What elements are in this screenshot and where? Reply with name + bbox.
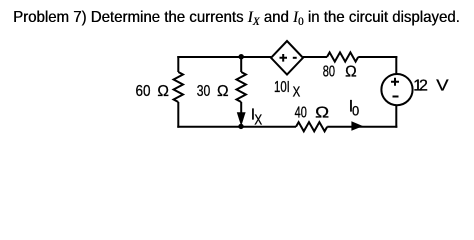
minus sign in diamond bbox=[293, 57, 297, 59]
node B junction dot bottom bbox=[238, 124, 243, 129]
svg-text:2: 2 bbox=[419, 78, 428, 95]
dependent source U1 diamond bbox=[271, 41, 303, 75]
wire left vertical lower bbox=[177, 102, 179, 128]
wire 30ohm branch lower bbox=[240, 102, 242, 113]
wire right vertical upper bbox=[395, 56, 397, 75]
svg-text:60: 60 bbox=[136, 83, 151, 100]
svg-text:10I: 10I bbox=[274, 79, 290, 96]
resistor R 30ohm (zigzag) bbox=[237, 72, 246, 102]
svg-text:Ω: Ω bbox=[217, 83, 229, 100]
svg-text:0: 0 bbox=[352, 102, 359, 118]
svg-text:V: V bbox=[436, 78, 449, 95]
wire top-left horizontal bbox=[177, 56, 271, 58]
resistor R 60ohm (zigzag) bbox=[174, 72, 183, 102]
svg-text:Ω: Ω bbox=[345, 63, 357, 80]
svg-text:30: 30 bbox=[197, 83, 211, 100]
plus sign in diamond bbox=[280, 54, 288, 62]
svg-text:X: X bbox=[293, 85, 301, 101]
title text bbox=[13, 10, 460, 26]
svg-text:Ω: Ω bbox=[157, 83, 169, 100]
resistor R 40ohm (zigzag) bbox=[296, 122, 327, 131]
minus sign in source bbox=[393, 96, 399, 98]
current arrow I0 (right) bbox=[351, 121, 363, 131]
svg-text:40: 40 bbox=[295, 105, 307, 122]
wire diamond to 80ohm bbox=[303, 56, 327, 58]
resistor R 80ohm (zigzag) bbox=[327, 52, 358, 61]
wire 30ohm branch upper bbox=[240, 57, 242, 72]
wire bottom right segment bbox=[327, 126, 397, 128]
wire right vertical lower bbox=[395, 105, 397, 128]
wire bottom left segment bbox=[177, 126, 296, 128]
voltage source V1 circle bbox=[381, 74, 412, 105]
svg-text:80: 80 bbox=[323, 63, 335, 80]
wire left vertical upper bbox=[177, 56, 179, 72]
plus sign in source bbox=[391, 78, 399, 86]
svg-text:Ω: Ω bbox=[315, 105, 329, 122]
current arrow Ix (down) bbox=[237, 112, 246, 126]
node A junction dot top bbox=[239, 54, 244, 59]
wire top right segment bbox=[358, 56, 397, 58]
svg-text:X: X bbox=[254, 111, 262, 128]
